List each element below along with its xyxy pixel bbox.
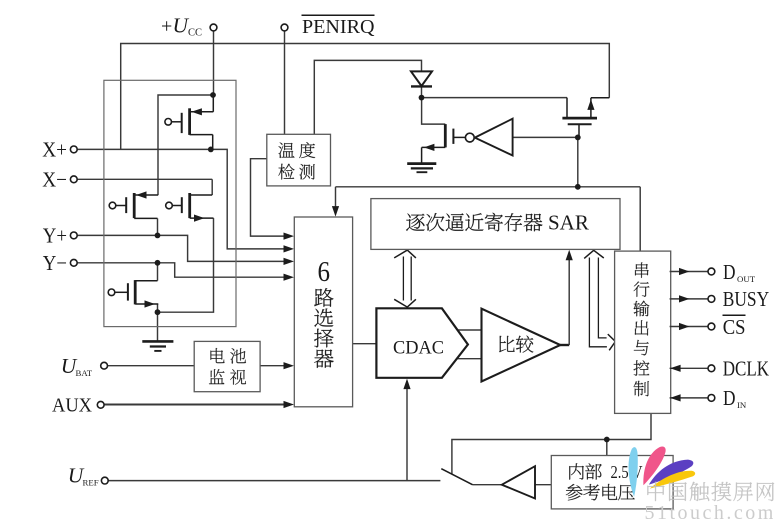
arrow selector input 1 [284, 233, 295, 240]
switch blade (open) [441, 469, 472, 485]
svg-text:6: 6 [317, 256, 330, 288]
block SAR register 逐次逼近寄存器SAR [371, 199, 620, 250]
wire reference node down into reference block [606, 440, 608, 456]
svg-text:Y−: Y− [43, 251, 67, 275]
wire X- line from terminal to switch MOSFET drain [77, 178, 212, 180]
wire selector output to CDAC [353, 343, 377, 345]
output BUSY [670, 287, 770, 311]
transistor Q5 (Y- switch) [108, 280, 158, 308]
node B junction (gate drive) [575, 135, 581, 141]
bus arrow SAR to serial control (bidirectional open arrow) [584, 250, 615, 350]
block 6-channel selector 6路选择器 [294, 217, 352, 407]
wire inverter output to gate node B [513, 136, 578, 138]
transistor Q6 (penirq pull-down) [422, 124, 466, 163]
wire buffer output to switch [473, 484, 502, 486]
svg-text:AUX: AUX [52, 394, 92, 416]
bus arrow SAR to CDAC (bidirectional open arrow) [394, 250, 416, 307]
svg-text:CC: CC [188, 27, 202, 38]
terminal U_BAT [61, 354, 108, 378]
wire Y- driver MOSFET source to ground node [157, 304, 159, 312]
arrow comparator to SAR [566, 250, 573, 260]
wire top rail from +Ucc area to right-side MOSFET drain [121, 44, 610, 150]
wire node A to small MOSFET drain [422, 98, 446, 125]
svg-text:X+: X+ [42, 138, 67, 162]
svg-text:CS: CS [723, 315, 746, 339]
arrow reference into CDAC [403, 379, 410, 390]
wire from temperature block top to diode anode [314, 60, 421, 134]
wire AUX terminal to selector input 6 [104, 404, 289, 406]
wire X- switch MOSFET source down to ground node [158, 218, 214, 312]
wire temperature block output to selector input 1 [251, 159, 290, 236]
block temperature detect 温度检测 [267, 134, 331, 186]
wire gate node B down to node C [577, 137, 579, 186]
block serial output control 串行输出与控制 [615, 251, 671, 413]
node VCC junction [210, 92, 216, 98]
node Y+ junction [155, 233, 161, 239]
output D_OUT [670, 260, 756, 284]
watermark feather logo [629, 446, 696, 496]
svg-text:PENIRQ: PENIRQ [302, 16, 375, 38]
block internal 2.5V reference 内部2.5V参考电压 [551, 456, 673, 509]
svg-text:CDAC: CDAC [393, 339, 444, 359]
wire node A: diode cathode to pull-up MOSFET source [422, 86, 568, 97]
node C junction [575, 184, 581, 190]
svg-text:Y+: Y+ [43, 223, 67, 247]
wire Y- line from terminal to selector input 4 [77, 263, 289, 277]
output CS-bar [670, 315, 746, 339]
input DCLK [670, 357, 770, 381]
wire U_REF line from terminal [108, 480, 440, 482]
wire reference to CDAC bottom [406, 383, 408, 481]
wire X+ line from terminal to selector input 2 [77, 149, 289, 249]
wire CDAC outputs to comparator inputs [458, 330, 482, 359]
wire Y- driver MOSFET drain up to Y- node [157, 263, 159, 281]
svg-text:IN: IN [737, 400, 747, 410]
transistor Q4 (pull-up, rotated) [562, 98, 609, 138]
wire node C horizontal rail to selector and serial control block [336, 187, 641, 251]
outer switch-matrix box [104, 80, 236, 326]
wire VCC node to left driver MOSFET drain [158, 95, 213, 195]
svg-text:BUSY: BUSY [723, 287, 770, 311]
wire serial control bottom to reference node [452, 413, 651, 474]
wire left driver MOSFET source to Y+ node [157, 218, 159, 235]
svg-text:DCLK: DCLK [723, 357, 770, 381]
arrow selector input 3 [284, 258, 295, 265]
terminal AUX [52, 394, 104, 416]
node X+ junction [208, 147, 214, 153]
wire ground node down to ground symbol [157, 312, 159, 341]
svg-text:U: U [173, 13, 190, 37]
terminal U_REF [68, 464, 109, 488]
wire battery monitor output to selector input 5 [260, 365, 289, 367]
arrow selector input 2 [284, 245, 295, 252]
arrow selector input 6 [284, 401, 295, 408]
node REF junction [604, 437, 610, 443]
wire +Ucc supply from terminal down to node VCC [213, 31, 215, 95]
wire reference block to buffer [535, 484, 551, 486]
block battery monitor 电池监视 [194, 341, 260, 391]
wire X- switch MOSFET drain lead up [211, 179, 213, 195]
svg-text:D: D [723, 386, 736, 410]
node A junction (diode cathode) [419, 95, 425, 101]
input D_IN [670, 386, 747, 410]
ground G2 (pull-down) [407, 164, 436, 173]
svg-text:SAR: SAR [548, 210, 589, 234]
terminal PENIRQ [281, 15, 375, 38]
terminal +Ucc [161, 13, 217, 38]
node Y- junction [155, 260, 161, 266]
arrow selector input 4 [284, 274, 295, 281]
svg-text:BAT: BAT [76, 368, 93, 378]
wire U_BAT terminal to battery monitor [108, 365, 195, 367]
diode D1 [411, 71, 432, 86]
node ground junction [155, 309, 161, 315]
terminal X- [42, 167, 77, 191]
transistor Q2 (Y+ driver) [109, 191, 158, 218]
arrow selector input 5 [284, 362, 295, 369]
svg-text:+: + [161, 15, 172, 37]
DAC block CDAC [376, 308, 468, 378]
arrow into selector top [332, 206, 339, 217]
ground G1 (switch matrix) [142, 341, 173, 351]
svg-text:REF: REF [83, 478, 99, 488]
transistor Q3 (X- switch) [166, 193, 214, 222]
terminal X+ [42, 138, 77, 162]
watermark text 51touch.com [645, 502, 776, 524]
wire PENIRQ from terminal down to temperature block [284, 31, 286, 134]
comparator U3 比较 [482, 309, 561, 382]
wire comparator output up to SAR [560, 254, 569, 345]
transistor Q1 (X+ driver) [165, 95, 213, 149]
inverter U2 [465, 119, 512, 156]
svg-text:OUT: OUT [737, 274, 756, 284]
svg-text:51touch.com: 51touch.com [645, 502, 776, 524]
op-amp U4 reference buffer [502, 466, 535, 498]
terminal Y- [43, 251, 77, 275]
svg-text:2.5 V: 2.5 V [611, 462, 643, 482]
watermark text 中国触摸屏网 [647, 482, 774, 501]
svg-text:X−: X− [42, 167, 67, 191]
wire Y+ line from terminal to selector input 3 [77, 235, 289, 261]
svg-text:D: D [723, 260, 736, 284]
terminal Y+ [43, 223, 77, 247]
